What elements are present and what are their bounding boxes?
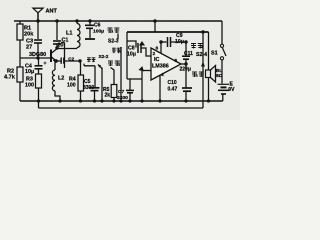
svg-text:100: 100 (67, 83, 76, 89)
capacitor C3 (37, 21, 39, 39)
svg-text:4: 4 (161, 72, 164, 78)
wire output (181, 63, 186, 65)
label fa-xin (S2-4) (192, 72, 204, 78)
svg-text:LM386: LM386 (152, 64, 169, 70)
svg-text:S2-4: S2-4 (196, 52, 207, 58)
op-amp U1 LM386 (151, 48, 181, 80)
wire emitter node (56, 60, 61, 62)
resistor R1 (17, 24, 23, 40)
svg-text:L1: L1 (66, 31, 73, 37)
svg-text:100: 100 (25, 83, 34, 89)
svg-text:10μ: 10μ (175, 39, 184, 45)
capacitor C8 (127, 41, 136, 48)
svg-text:100μ: 100μ (93, 28, 104, 34)
switch S2-1 pole (141, 71, 143, 102)
capacitor C5 (90, 87, 100, 89)
svg-text:5: 5 (175, 58, 178, 64)
wire right drop to S1 (221, 21, 223, 44)
svg-text:4.7k: 4.7k (4, 75, 16, 81)
wire S2-3 pole down (126, 32, 128, 79)
capacitor C6 (89, 21, 91, 25)
svg-text:L2: L2 (58, 76, 64, 82)
switch S2-2 arrow (98, 65, 102, 69)
svg-text:0.47: 0.47 (168, 86, 178, 92)
wire S2-4 pole (202, 32, 204, 108)
capacitor C9 (161, 41, 167, 43)
svg-text:2k: 2k (105, 93, 111, 99)
capacitor C11 (185, 42, 187, 56)
capacitor C1 (56, 21, 58, 40)
wire bottom rail 1 (20, 100, 223, 102)
svg-text:C10: C10 (168, 80, 177, 86)
svg-text:IC: IC (154, 57, 159, 63)
resistor R5 (111, 68, 115, 85)
inductor L1 (76, 21, 78, 24)
svg-text:ANT: ANT (46, 9, 58, 15)
wire S2-2 pole down (101, 68, 103, 102)
node dots (37, 20, 210, 102)
scan noise (0, 0, 240, 120)
label jie-shou (S2-3) (112, 48, 120, 54)
switch S2-3 fa-xin contact (117, 34, 119, 40)
speaker BL (208, 32, 210, 70)
label jie-shou (S2-4) (191, 43, 203, 49)
wire pin 6 up (160, 42, 162, 53)
svg-text:3300: 3300 (117, 95, 128, 101)
capacitor C5 top lead (94, 66, 96, 88)
wire lower link (127, 78, 142, 80)
svg-text:BL: BL (216, 68, 222, 74)
svg-text:10μ: 10μ (127, 52, 136, 58)
label jie-shou (S2-2) (108, 61, 120, 67)
resistor R2 (17, 67, 23, 82)
inductor L2 (54, 61, 56, 70)
svg-text:9V: 9V (228, 87, 235, 93)
resistor R4 (80, 61, 82, 75)
switch S2-2 fa-xin contact (84, 64, 95, 66)
svg-text:C2: C2 (68, 57, 74, 62)
svg-text:S2-3: S2-3 (108, 39, 119, 45)
wire bottom rail 2 (39, 107, 204, 109)
svg-text:S2-2: S2-2 (99, 54, 109, 59)
label fa-xin (S2-2) (87, 57, 95, 62)
wire second rail feed (127, 31, 209, 33)
capacitor C10 (185, 64, 187, 88)
svg-text:220μ: 220μ (180, 67, 191, 73)
svg-text:20k: 20k (24, 32, 34, 38)
wire top rail (14, 20, 222, 22)
switch S2-3 jie-shou contact (120, 48, 122, 102)
resistor R3 (36, 74, 42, 88)
wire pin 4 down (159, 76, 161, 102)
svg-text:27: 27 (26, 45, 32, 51)
svg-text:S1: S1 (211, 51, 218, 57)
wire base node (20, 57, 51, 59)
svg-text:3300: 3300 (83, 85, 94, 91)
capacitor C4 (38, 58, 40, 65)
svg-text:10μ: 10μ (25, 69, 34, 75)
svg-text:C6: C6 (94, 23, 101, 29)
wire C1 to emitter link (61, 43, 65, 69)
label fa-xin (S2-3) (108, 28, 120, 34)
transistor Q1 3DG80 (50, 50, 52, 63)
battery E 9V (218, 83, 230, 85)
capacitor C2 (60, 58, 62, 64)
wire op-amp pin3 (142, 70, 151, 72)
antenna ANT (37, 13, 39, 21)
svg-text:6: 6 (156, 46, 159, 52)
wire rail tap (154, 21, 156, 32)
svg-text:C11: C11 (184, 51, 193, 57)
capacitor C7 (129, 79, 131, 90)
switch S1 (220, 44, 223, 47)
svg-text:2: 2 (153, 51, 156, 57)
wire collector node (57, 48, 77, 50)
switch S2-4 arrow (201, 62, 205, 67)
